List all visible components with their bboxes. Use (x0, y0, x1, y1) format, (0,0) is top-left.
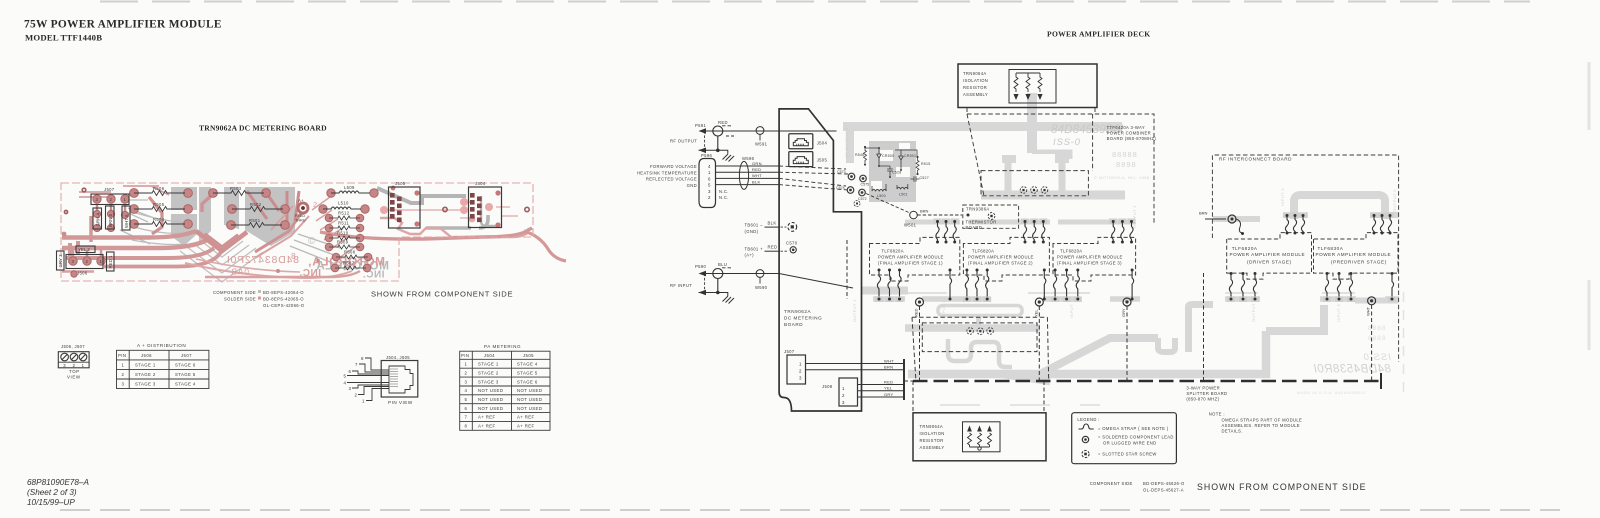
pink band right edge hook (524, 231, 566, 261)
gray mirrored text INC. (363, 270, 385, 281)
gray fan traces center-right to J505 (290, 234, 342, 266)
svg-text:NOT USED: NOT USED (478, 397, 503, 402)
ground-plane fill right plane (245, 187, 295, 246)
svg-text:R510: R510 (337, 231, 349, 236)
svg-text:N.C.: N.C. (719, 189, 729, 194)
svg-text:10/15/99–UP: 10/15/99–UP (27, 498, 75, 507)
trace: interconnect bridge (1294, 195, 1385, 219)
resistor R501 (231, 223, 282, 228)
star screw below pads (854, 201, 860, 207)
svg-text:STAGE 5: STAGE 5 (517, 370, 538, 375)
gray nested V traces under center (180, 240, 263, 282)
svg-text:TLF6820A: TLF6820A (882, 249, 904, 254)
resistor R504 (134, 222, 185, 227)
omega strap symbol (1079, 424, 1094, 429)
capacitor C528 (887, 166, 893, 174)
svg-text:THERMISTOR: THERMISTOR (966, 220, 997, 225)
faint horizontal artifact y=405 (940, 404, 1100, 406)
svg-text:J504, J505: J504, J505 (386, 355, 410, 360)
svg-text:C574: C574 (836, 186, 845, 190)
gray mirrored ISS-0 (1363, 352, 1391, 363)
svg-text:YEL: YEL (884, 386, 893, 391)
PCB side-note: component/solder side ids (213, 290, 305, 308)
svg-text:WHT: WHT (884, 358, 894, 363)
stage1 bottom wires (875, 269, 952, 303)
connector circle P590 (713, 269, 723, 279)
svg-text:OUTPUT 6: OUTPUT 6 (1392, 189, 1397, 212)
svg-text:TTF6420A 3-WAY: TTF6420A 3-WAY (1107, 125, 1145, 130)
svg-text:P590: P590 (695, 264, 707, 269)
svg-text:STAGE 1: STAGE 1 (478, 362, 499, 367)
pink blob left of center plane (149, 197, 162, 234)
soldered lead C570 (790, 247, 796, 253)
svg-text:J508: J508 (822, 384, 833, 389)
svg-text:MODEL TTF1440B: MODEL TTF1440B (25, 33, 102, 43)
svg-text:SPLITTER BOARD: SPLITTER BOARD (1186, 391, 1227, 396)
svg-text:(FINAL AMPLIFIER STAGE 2): (FINAL AMPLIFIER STAGE 2) (968, 260, 1033, 265)
pink traces across right plane (247, 191, 299, 221)
svg-text:RED 1: RED 1 (108, 255, 113, 268)
jack contact lines (390, 369, 398, 387)
svg-text:R546: R546 (855, 153, 864, 157)
svg-text:L510: L510 (338, 201, 349, 206)
svg-text:STAGE 4: STAGE 4 (175, 382, 196, 387)
predriver top wires (1370, 213, 1394, 235)
TB601- (GND) (745, 223, 764, 234)
svg-text:GRY: GRY (1121, 308, 1126, 317)
pink trace R503 left drop (202, 194, 213, 212)
svg-text:TLF6820A: TLF6820A (972, 249, 994, 254)
svg-text:NOT USED: NOT USED (478, 406, 503, 411)
svg-text:BOARD (850-870MHZ): BOARD (850-870MHZ) (1107, 136, 1157, 141)
svg-text:1: 1 (122, 363, 125, 368)
terminal screws (61, 353, 87, 361)
svg-text:L500: L500 (877, 194, 886, 198)
svg-text:R504: R504 (153, 217, 165, 222)
svg-text:R508: R508 (344, 250, 356, 255)
svg-text:ASSEMBLY: ASSEMBLY (963, 92, 988, 97)
inductor L509 (331, 191, 370, 193)
pink vertical stubs J507 pads (97, 204, 125, 214)
module TLF6820A stage 2 (963, 237, 1049, 281)
resistor R510 (329, 236, 360, 240)
svg-text:R507: R507 (343, 261, 355, 266)
svg-text:BOARD: BOARD (784, 322, 803, 327)
YEL lug (1035, 298, 1043, 306)
J506 connector box (66, 255, 103, 269)
jack J504 icon (789, 134, 828, 149)
connector circle P591 (713, 126, 723, 136)
trace: combiner band lower (981, 191, 1125, 200)
J504 component box (469, 187, 502, 228)
svg-text:PIN VIEW: PIN VIEW (388, 400, 413, 405)
svg-text:J505: J505 (817, 158, 828, 163)
wire tag YEL 2 (76, 246, 95, 253)
svg-text:R505: R505 (153, 202, 165, 207)
svg-text:CR501: CR501 (904, 154, 916, 158)
gray trace bottom band to J504 (426, 215, 488, 228)
svg-text:LEGEND :: LEGEND : (1077, 417, 1099, 422)
white cutouts in cluster plate (871, 143, 910, 190)
trace: splitter right rise (1266, 305, 1324, 331)
gray mirrored 84DB4538R01 (1313, 364, 1391, 376)
resistor trio up (967, 426, 992, 451)
trace: interconnect stub right (1385, 212, 1399, 218)
pink thin connect lines near J504 (384, 202, 518, 218)
pink mirrored text 84D83472P01 (226, 254, 299, 266)
gray trace loops under resistors (132, 213, 186, 245)
wire tag GRN 4 (93, 208, 102, 229)
svg-text:= SOLDERED COMPONENT LEAD: = SOLDERED COMPONENT LEAD (1098, 435, 1174, 440)
pink trace under L509/L510 fan (312, 197, 368, 270)
svg-text:2: 2 (465, 370, 468, 375)
svg-text:WHT 6: WHT 6 (124, 214, 129, 228)
pink chevron around center (196, 231, 247, 251)
trace: splitter main band (908, 331, 1266, 374)
svg-text:R512: R512 (338, 211, 350, 216)
svg-text:A + DISTRIBUTION: A + DISTRIBUTION (137, 343, 186, 348)
svg-text:RF OUTPUT: RF OUTPUT (670, 139, 697, 144)
pink jack lead circles (380, 198, 493, 222)
svg-text:DC METERING: DC METERING (784, 316, 822, 321)
svg-text:J507: J507 (784, 349, 795, 354)
trace: thin rails y293 (908, 292, 1355, 294)
PA metering table grid (460, 351, 550, 430)
svg-text:RESISTOR: RESISTOR (963, 85, 987, 90)
svg-text:L501: L501 (899, 193, 908, 197)
svg-text:ASSEMBLY: ASSEMBLY (920, 445, 945, 450)
svg-text:FORWARD VOLTAGE: FORWARD VOLTAGE (650, 164, 697, 169)
svg-text:BRN: BRN (920, 209, 929, 214)
svg-text:C575: C575 (861, 183, 870, 187)
trace: combiner vertical (1027, 93, 1037, 153)
svg-text:C527: C527 (920, 176, 929, 180)
stage2 top wires (1021, 219, 1047, 244)
pink mirrored MOTOROLA, echo (308, 255, 385, 269)
svg-text:VIEW: VIEW (67, 375, 81, 380)
svg-text:BLK: BLK (768, 221, 777, 226)
board outline TRN9062A (779, 109, 861, 411)
component overlay: J507 connector box (91, 194, 129, 205)
svg-text:C572: C572 (858, 197, 867, 201)
svg-text:INC.: INC. (299, 268, 321, 279)
connector shell P596 (699, 159, 716, 208)
svg-text:3-WAY POWER: 3-WAY POWER (1186, 386, 1220, 391)
svg-text:RF INPUT: RF INPUT (670, 283, 692, 288)
wire through connector (701, 273, 780, 275)
ferrite W591 (756, 127, 764, 135)
svg-text:INPUT 2: INPUT 2 (941, 300, 946, 318)
inductor L500 (872, 189, 886, 191)
pink bus trace 4 (104, 252, 221, 267)
svg-text:L509: L509 (344, 185, 355, 190)
svg-text:= SLOTTED STAR SCREW: = SLOTTED STAR SCREW (1098, 452, 1157, 457)
svg-text:STAGE 5: STAGE 5 (175, 372, 196, 377)
misc cluster links (865, 148, 917, 191)
N.C. labels (719, 189, 729, 200)
driver top wires (1283, 213, 1307, 235)
svg-text:A+ REF: A+ REF (517, 415, 535, 420)
PA metering table text (461, 353, 542, 429)
driver area leader dashed (1203, 273, 1205, 381)
trace: serpentine meander (948, 339, 1012, 367)
svg-text:A+: A+ (298, 198, 304, 203)
wire tag BRN 5 (106, 206, 115, 229)
svg-text:(GND): (GND) (745, 229, 759, 234)
svg-text:INPUT 6: INPUT 6 (1336, 304, 1341, 322)
svg-text:R502: R502 (250, 202, 262, 207)
svg-text:WHT: WHT (1366, 306, 1371, 316)
pink thin sweeps to bottom right (185, 263, 352, 278)
svg-text:POWER AMPLIFIER DECK: POWER AMPLIFIER DECK (1047, 30, 1150, 39)
svg-text:OL-CEPS-42066-O: OL-CEPS-42066-O (263, 303, 305, 308)
svg-text:PA METERING: PA METERING (484, 344, 521, 349)
J507 pads (93, 195, 129, 232)
svg-text:TRN9064A: TRN9064A (920, 424, 944, 429)
svg-text:R506: R506 (153, 186, 165, 191)
svg-text:POWER AMPLIFIER MODULE: POWER AMPLIFIER MODULE (1057, 254, 1123, 259)
svg-text:W591: W591 (755, 142, 768, 147)
svg-text:BRN: BRN (1199, 211, 1208, 216)
svg-text:TLF6820A: TLF6820A (1232, 246, 1258, 251)
svg-text:(A+): (A+) (745, 253, 755, 258)
svg-text:NOT USED: NOT USED (478, 388, 503, 393)
svg-text:J507: J507 (104, 187, 115, 192)
svg-text:(850-870 MHZ): (850-870 MHZ) (1186, 397, 1219, 402)
svg-text:R503: R503 (230, 186, 242, 191)
svg-text:RED: RED (914, 308, 919, 317)
svg-text:RF INTERCONNECT BOARD: RF INTERCONNECT BOARD (1219, 157, 1292, 162)
svg-text:J505: J505 (523, 353, 534, 358)
board label TRN9062A DC METERING BOARD (784, 309, 822, 327)
svg-text:W501: W501 (904, 223, 917, 228)
wire tag GRY 3 (57, 251, 65, 270)
board outline (dashed pink) (61, 183, 533, 281)
J505 corner pads (391, 186, 420, 227)
svg-text:BRN: BRN (884, 365, 893, 370)
svg-text:RED: RED (718, 120, 728, 125)
svg-text:STAGE 6: STAGE 6 (175, 363, 196, 368)
svg-text:2: 2 (122, 372, 125, 377)
faint scan artifacts right edge (1404, 62, 1590, 398)
module TLF6820A stage 1 (870, 237, 960, 281)
svg-text:TLF6830A: TLF6830A (1318, 246, 1344, 251)
ground hatch (718, 293, 728, 297)
RED lug (916, 298, 924, 306)
wire through connector (701, 130, 837, 132)
svg-text:RED: RED (884, 379, 893, 384)
svg-text:RF OUTPUT 4: RF OUTPUT 4 (844, 127, 849, 158)
svg-text:6: 6 (465, 406, 468, 411)
combiner star screws (1020, 187, 1048, 194)
svg-text:(DRIVER STAGE): (DRIVER STAGE) (1247, 260, 1292, 265)
svg-text:(FINAL AMPLIFIER STAGE 1): (FINAL AMPLIFIER STAGE 1) (878, 260, 943, 265)
svg-text:ASSEMBLIES. REFER TO MODULE: ASSEMBLIES. REFER TO MODULE (1222, 423, 1300, 428)
capacitor C527 (911, 176, 920, 182)
svg-text:REFLECTED VOLTAGE: REFLECTED VOLTAGE (646, 177, 697, 182)
star screw TB601- (788, 223, 797, 232)
svg-text:NOT USED: NOT USED (517, 388, 542, 393)
splitter board star screws (967, 328, 994, 335)
trace: top feed band (843, 122, 1122, 131)
svg-text:88888: 88888 (1112, 150, 1138, 159)
trace: coax column (846, 131, 854, 163)
svg-text:NOTE :: NOTE : (1209, 412, 1225, 417)
trace: cluster plate (869, 141, 916, 202)
svg-text:NOT USED: NOT USED (517, 406, 542, 411)
svg-text:BD-8EPS-42065-O: BD-8EPS-42065-O (263, 297, 304, 302)
svg-text:J504: J504 (817, 141, 828, 146)
svg-text:8888: 8888 (1368, 325, 1386, 332)
svg-text:GRN: GRN (752, 161, 762, 166)
svg-text:PIN: PIN (118, 353, 126, 358)
svg-text:© MOTOROLA, INC. 1988: © MOTOROLA, INC. 1988 (1094, 175, 1150, 180)
svg-text:YEL: YEL (1033, 309, 1038, 317)
svg-text:STAGE 3: STAGE 3 (478, 379, 499, 384)
jack pin stub wires (347, 358, 389, 401)
svg-text:POWER AMPLIFIER MODULE: POWER AMPLIFIER MODULE (1230, 252, 1306, 257)
svg-text:J506, J507: J506, J507 (61, 344, 85, 349)
svg-text:A+ REF: A+ REF (517, 424, 535, 429)
svg-text:GND: GND (687, 183, 697, 188)
svg-text:THRU: THRU (295, 219, 306, 223)
J505 component box (389, 187, 421, 228)
drop to ground junction (717, 136, 719, 150)
page edge artifact bottom (60, 509, 1560, 511)
page edge artifact top (100, 1, 1530, 3)
predriver bottom wires (1323, 272, 1396, 302)
svg-text:SOLDER SIDE: SOLDER SIDE (224, 297, 256, 302)
trace: splitter diagonal B (1040, 338, 1158, 374)
svg-text:3: 3 (465, 379, 468, 384)
svg-text:©: © (308, 236, 316, 247)
svg-text:OR LUGGED WIRE END: OR LUGGED WIRE END (1103, 441, 1157, 446)
resistor R511 (329, 226, 360, 230)
trace: WHT pad stub (1355, 298, 1398, 304)
svg-text:N.C.: N.C. (719, 195, 729, 200)
A+ distribution table grid (117, 350, 209, 388)
four wires to board (716, 166, 780, 185)
svg-text:A+ REF: A+ REF (478, 415, 496, 420)
svg-text:R509: R509 (337, 240, 349, 245)
svg-text:4: 4 (465, 388, 468, 393)
dashed continuation on board (779, 166, 848, 190)
ground-plane fill left-center (171, 187, 197, 246)
ferrite W596 (739, 161, 748, 189)
stage3 bottom wires (1051, 269, 1134, 303)
diode CR500 (877, 151, 882, 161)
wire tag RED 1 (107, 252, 115, 271)
resistor R502 (232, 207, 283, 212)
trace: combiner verticals (1008, 163, 1062, 191)
pink chevron 2 (205, 234, 238, 247)
svg-text:STAGE 2: STAGE 2 (478, 370, 499, 375)
svg-text:ISOLATION: ISOLATION (920, 431, 945, 436)
pink bus traces from J506 (62, 231, 196, 238)
gray fan traces from J507 (120, 200, 154, 244)
svg-text:C570: C570 (786, 240, 798, 245)
svg-text:BRN 5: BRN 5 (108, 214, 113, 227)
svg-text:STAGE 6: STAGE 6 (517, 379, 538, 384)
jack J505 icon (789, 152, 828, 167)
svg-text:OMEGA STRAPS PART OF MODULE: OMEGA STRAPS PART OF MODULE (1222, 418, 1303, 423)
gray vertical net labels (844, 127, 1397, 322)
svg-text:TRN9062A: TRN9062A (784, 309, 812, 314)
svg-text:MADE IN U.S.A. 84D84538R01: MADE IN U.S.A. 84D84538R01 (1297, 390, 1367, 395)
svg-text:8: 8 (465, 424, 468, 429)
svg-text:J507: J507 (181, 353, 192, 358)
resistor R546 (864, 148, 867, 163)
svg-text:GRY: GRY (884, 392, 894, 397)
trace: combiner stub (1032, 153, 1069, 159)
J505 inner pin pads (390, 193, 402, 222)
left arrow top (699, 128, 707, 134)
connector J508 (839, 378, 858, 406)
module TLF6820A stage 3 (1053, 237, 1136, 281)
trace: rounded slot outline (938, 306, 1022, 316)
svg-text:TB601 –: TB601 – (745, 223, 764, 228)
svg-text:R515: R515 (921, 162, 930, 166)
svg-text:J506: J506 (141, 353, 152, 358)
svg-text:TOP: TOP (69, 369, 80, 374)
resistor R509 (329, 245, 360, 249)
jack body (381, 361, 418, 398)
resistor R515 (916, 158, 919, 173)
svg-text:SHOWN FROM COMPONENT SIDE: SHOWN FROM COMPONENT SIDE (371, 290, 513, 299)
module TLF6830A predriver (1314, 233, 1399, 280)
pink trace A+ zone diagonals (255, 206, 309, 258)
trace: splitter band y328 (905, 324, 1040, 332)
wire tag WHT 6 (122, 206, 130, 230)
svg-text:BOARD: BOARD (966, 225, 983, 230)
svg-text:2: 2 (313, 200, 317, 209)
svg-text:1: 1 (465, 362, 468, 367)
stage3 top wires (1109, 219, 1135, 244)
A+ feed-thru pad (297, 202, 310, 215)
resistor R512 (329, 216, 360, 220)
svg-text:GRN 4: GRN 4 (96, 213, 101, 227)
ground hatch (718, 150, 728, 154)
terminal numbers (63, 363, 84, 368)
pin numbers (708, 164, 711, 200)
resistor trio down (1013, 73, 1042, 100)
pink band bottom right wide (320, 228, 532, 239)
svg-text:TRN9386A: TRN9386A (966, 207, 990, 212)
svg-text:R511: R511 (338, 221, 349, 226)
gray trace hook inside J504 (481, 196, 497, 226)
cluster labels (855, 153, 930, 198)
gray mirrored text MOTOROLA (316, 259, 389, 273)
pink bus trace 2 (62, 240, 207, 248)
terminal bar (903, 359, 905, 400)
svg-text:TLF6820A: TLF6820A (1060, 249, 1082, 254)
svg-text:TRN9064A: TRN9064A (963, 71, 987, 76)
pink band lower right to J505 (380, 218, 529, 237)
trace: module interconnect stubs (905, 220, 1135, 225)
ground-plane fill column B (199, 187, 211, 243)
white slot in combiner band (1016, 154, 1055, 163)
svg-text:= OMEGA STRAP ( SEE NOTE ): = OMEGA STRAP ( SEE NOTE ) (1098, 426, 1169, 431)
svg-text:PIN: PIN (461, 353, 469, 358)
svg-text:BLU: BLU (718, 262, 727, 267)
svg-text:C573: C573 (837, 170, 846, 174)
resistor pads left bank (130, 189, 290, 230)
stage1 top wires (934, 219, 959, 244)
module TLF6820A driver (1227, 233, 1312, 280)
driver bottom wires (1227, 272, 1259, 302)
svg-text:5: 5 (465, 397, 468, 402)
svg-text:STAGE 3: STAGE 3 (135, 382, 156, 387)
